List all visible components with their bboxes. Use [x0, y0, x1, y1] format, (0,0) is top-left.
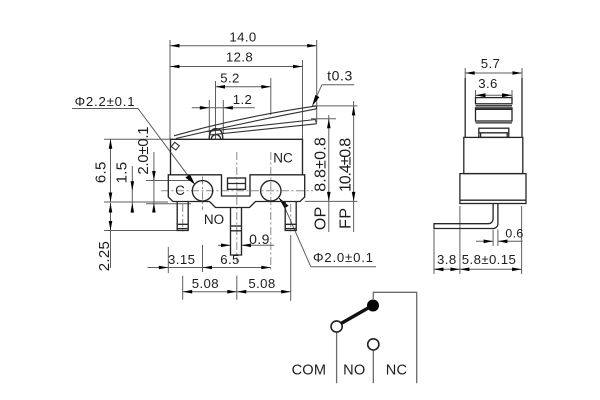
svg-text:COM: COM [292, 363, 327, 379]
svg-text:6.5: 6.5 [92, 161, 109, 183]
svg-text:1.2: 1.2 [233, 92, 253, 107]
svg-text:0.9: 0.9 [249, 231, 270, 247]
svg-text:0.6: 0.6 [505, 226, 523, 240]
svg-text:C: C [175, 183, 185, 198]
svg-text:Φ2.0±0.1: Φ2.0±0.1 [313, 250, 374, 265]
svg-text:3.6: 3.6 [478, 76, 498, 91]
svg-text:3.15: 3.15 [168, 252, 195, 267]
svg-text:3.8: 3.8 [437, 252, 457, 267]
svg-text:Φ2.2±0.1: Φ2.2±0.1 [75, 94, 136, 109]
svg-text:5.08: 5.08 [248, 276, 275, 291]
svg-text:5.2: 5.2 [220, 71, 240, 86]
svg-text:2.0±0.1: 2.0±0.1 [135, 126, 152, 175]
svg-text:NC: NC [273, 151, 293, 166]
svg-text:t0.3: t0.3 [327, 67, 353, 83]
svg-text:8.8±0.8: 8.8±0.8 [312, 137, 329, 192]
svg-text:OP: OP [312, 206, 329, 230]
svg-text:5.8±0.15: 5.8±0.15 [462, 252, 516, 267]
svg-text:FP: FP [337, 208, 354, 229]
svg-text:1.5: 1.5 [114, 162, 131, 184]
svg-text:14.0: 14.0 [229, 30, 256, 45]
svg-text:NO: NO [204, 212, 224, 227]
svg-text:10.4±0.8: 10.4±0.8 [337, 137, 354, 192]
svg-text:2.25: 2.25 [96, 241, 113, 271]
svg-text:5.7: 5.7 [481, 56, 501, 71]
svg-text:NO: NO [343, 363, 365, 379]
svg-text:5.08: 5.08 [192, 276, 219, 291]
svg-text:NC: NC [386, 363, 407, 379]
svg-text:6.5: 6.5 [220, 252, 240, 267]
svg-text:12.8: 12.8 [226, 50, 253, 65]
